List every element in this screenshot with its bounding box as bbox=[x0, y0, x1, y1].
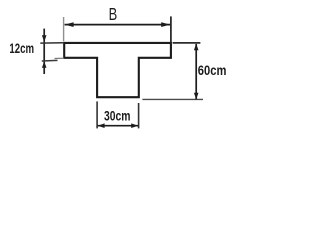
extension tick bottom (12cm) bbox=[42, 59, 58, 62]
arrowhead left (30cm) bbox=[98, 123, 105, 128]
extension stub flange-bottom-left (12cm) bbox=[55, 57, 65, 59]
svg-text:12cm: 12cm bbox=[9, 41, 34, 56]
arrowhead up (60cm) bbox=[194, 44, 199, 51]
dimension line 60cm (vertical) bbox=[195, 44, 197, 99]
dimension line B bbox=[65, 24, 171, 26]
svg-text:30cm: 30cm bbox=[104, 108, 131, 123]
T-beam cross-section outline bbox=[64, 43, 171, 97]
dimension line 30cm bbox=[98, 125, 139, 127]
arrowhead right (B) bbox=[161, 22, 170, 27]
arrowhead right (30cm) bbox=[131, 123, 138, 128]
svg-text:B: B bbox=[109, 4, 118, 24]
extension line left (30cm) bbox=[96, 101, 98, 128]
dimension line 12cm (vertical) bbox=[43, 29, 45, 74]
extension line bottom (60cm) bbox=[142, 98, 203, 100]
extension tick top (12cm) bbox=[40, 42, 64, 44]
arrowhead left (B) bbox=[65, 22, 74, 27]
arrowhead down (12cm) bbox=[42, 35, 47, 42]
arrowhead down (60cm) bbox=[194, 93, 199, 100]
extension line top (60cm) bbox=[173, 42, 201, 44]
extension line right (30cm) bbox=[138, 103, 140, 128]
extension line left of B dimension bbox=[63, 17, 65, 41]
arrowhead up (12cm) bbox=[42, 62, 47, 68]
svg-text:60cm: 60cm bbox=[198, 63, 227, 78]
extension line right of B dimension bbox=[170, 16, 172, 42]
